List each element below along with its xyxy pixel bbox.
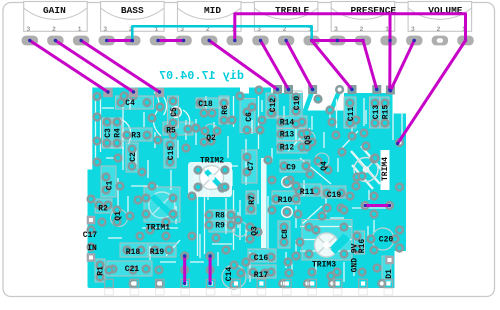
svg-text:3: 3 bbox=[411, 26, 415, 33]
svg-text:IN: IN bbox=[87, 244, 97, 253]
wire GAIN2 to board bbox=[54, 39, 136, 94]
svg-text:R1: R1 bbox=[97, 266, 106, 276]
svg-text:Q2: Q2 bbox=[206, 134, 216, 143]
wire TREBLE1-PRESENCE3 bbox=[310, 39, 339, 42]
svg-text:C14: C14 bbox=[225, 267, 234, 282]
svg-text:C2: C2 bbox=[129, 152, 138, 162]
trimmer TRIM1 bbox=[149, 192, 175, 218]
trimmer TRIM3 bbox=[315, 233, 346, 257]
wire MID2 to board bbox=[208, 39, 280, 91]
wire PRESENCE1 to board bbox=[388, 14, 392, 92]
resistor R17 bbox=[248, 265, 276, 278]
potentiometer GAIN bbox=[24, 2, 87, 33]
svg-text:TRIM2: TRIM2 bbox=[200, 157, 224, 166]
svg-text:3: 3 bbox=[103, 26, 107, 33]
svg-text:2: 2 bbox=[360, 26, 364, 33]
wire BASS3-BASS2 bbox=[105, 39, 134, 42]
capacitor C10 bbox=[290, 91, 302, 116]
svg-text:R8: R8 bbox=[215, 212, 225, 221]
svg-text:C9: C9 bbox=[286, 164, 296, 173]
svg-text:GND 9V: GND 9V bbox=[351, 243, 360, 272]
capacitor C16 bbox=[248, 249, 276, 262]
svg-text:BASS: BASS bbox=[121, 5, 144, 16]
svg-text:C6: C6 bbox=[245, 112, 254, 122]
capacitor C1 bbox=[101, 166, 116, 197]
lug MID 2 bbox=[201, 36, 217, 46]
svg-text:2: 2 bbox=[436, 26, 440, 33]
wire BASS1-MID3 bbox=[156, 39, 185, 42]
bottom pad row bbox=[105, 279, 393, 288]
trimmer TRIM3 frame bbox=[302, 220, 352, 261]
capacitor C4 bbox=[116, 96, 154, 109]
svg-text:C12: C12 bbox=[269, 98, 278, 113]
svg-text:C5: C5 bbox=[170, 107, 179, 117]
svg-text:C1: C1 bbox=[106, 181, 115, 191]
capacitor C20 body bbox=[372, 228, 394, 250]
svg-text:C8: C8 bbox=[281, 229, 290, 239]
capacitor C6 bbox=[240, 99, 255, 133]
svg-text:R2: R2 bbox=[98, 205, 108, 214]
potentiometer TREBLE bbox=[254, 2, 318, 33]
transistor Q5 bbox=[301, 131, 315, 145]
resistor R9 bbox=[209, 221, 235, 232]
svg-text:C18: C18 bbox=[198, 100, 213, 109]
svg-text:C3: C3 bbox=[104, 128, 113, 138]
svg-text:diy 17.04.07: diy 17.04.07 bbox=[159, 69, 244, 83]
lug VOLUME 2 bbox=[432, 36, 448, 46]
wire board horizontal bbox=[363, 204, 391, 207]
resistor R10 bbox=[272, 191, 300, 204]
trimmer TRIM1 frame bbox=[144, 187, 180, 222]
potentiometer VOLUME bbox=[408, 2, 472, 33]
via squares (GAIN wires) bbox=[103, 88, 112, 97]
pad courtyards bbox=[170, 106, 293, 218]
potentiometer BASS bbox=[101, 2, 165, 33]
cyan wire BASS2-TREBLE1 bbox=[131, 26, 314, 42]
svg-text:Q4: Q4 bbox=[320, 161, 329, 171]
top pad trace stubs bbox=[275, 88, 392, 111]
svg-text:R18: R18 bbox=[126, 248, 141, 257]
ghost pads below board bbox=[105, 289, 393, 295]
resistor R19 bbox=[148, 243, 176, 257]
svg-text:R5: R5 bbox=[166, 127, 176, 136]
svg-text:C13: C13 bbox=[372, 105, 381, 120]
lug BASS 2 bbox=[124, 36, 140, 46]
wire target pads (top row) bbox=[273, 85, 395, 95]
svg-text:C11: C11 bbox=[347, 107, 356, 122]
wire GAIN3 to board bbox=[28, 39, 110, 94]
capacitor C15 bbox=[164, 139, 176, 168]
lug GAIN 2 bbox=[47, 36, 63, 46]
resistor R16 bbox=[355, 231, 365, 254]
lug GAIN 1 bbox=[73, 36, 89, 46]
resistor R6 bbox=[219, 96, 229, 124]
wire TREBLE3 to board bbox=[259, 39, 290, 91]
capacitor C7 bbox=[242, 150, 257, 183]
svg-text:C17: C17 bbox=[83, 231, 98, 240]
capacitor C18 bbox=[196, 98, 228, 108]
trimmer trace slashes bbox=[152, 196, 348, 252]
svg-text:R19: R19 bbox=[150, 248, 165, 257]
solder pads bbox=[86, 85, 404, 289]
svg-text:Q3: Q3 bbox=[251, 226, 260, 236]
transistor Q4 bbox=[315, 153, 329, 167]
resistor R5 bbox=[163, 122, 193, 135]
resistor R2 bbox=[95, 199, 112, 213]
wire VOLUME3 to board bbox=[389, 39, 416, 93]
transistor Q2 bbox=[204, 124, 218, 138]
resistor R18 bbox=[120, 243, 148, 257]
lug BASS 3 bbox=[99, 36, 115, 46]
capacitor C2 bbox=[126, 143, 138, 172]
potentiometer MID bbox=[178, 2, 242, 33]
board text diy 17.04.07 (mirrored) bbox=[159, 69, 244, 83]
svg-text:C7: C7 bbox=[247, 161, 256, 171]
svg-text:R6: R6 bbox=[221, 105, 230, 115]
svg-text:Q1: Q1 bbox=[114, 211, 123, 221]
svg-text:C21: C21 bbox=[125, 265, 140, 274]
lug TREBLE 1 bbox=[304, 36, 320, 46]
svg-text:R9: R9 bbox=[215, 222, 225, 231]
trimmer TRIM2 frame bbox=[194, 163, 231, 196]
label GND 9V (mirrored) bbox=[351, 243, 360, 272]
capacitor C3 bbox=[103, 118, 113, 148]
resistor R4 bbox=[112, 118, 122, 148]
svg-text:Q5: Q5 bbox=[304, 135, 313, 145]
svg-text:R14: R14 bbox=[280, 119, 295, 128]
capacitor C13 bbox=[370, 97, 380, 128]
lug MID 3 bbox=[175, 36, 191, 46]
svg-text:C19: C19 bbox=[327, 191, 342, 200]
svg-text:R12: R12 bbox=[280, 144, 295, 153]
svg-text:C15: C15 bbox=[167, 146, 176, 161]
lug TREBLE 3 bbox=[252, 36, 268, 46]
lug VOLUME 1 bbox=[457, 36, 473, 46]
lug GAIN 3 bbox=[22, 36, 38, 46]
lug VOLUME 3 bbox=[406, 36, 422, 46]
diode D1 bbox=[382, 256, 391, 282]
trace gaps texture bbox=[96, 92, 403, 282]
capacitor C14 body bbox=[222, 265, 246, 289]
svg-text:R4: R4 bbox=[114, 128, 123, 138]
svg-text:R17: R17 bbox=[254, 271, 269, 280]
svg-text:C10: C10 bbox=[293, 96, 302, 111]
resistor R15 bbox=[380, 97, 389, 128]
svg-text:GAIN: GAIN bbox=[43, 5, 66, 16]
lug PRESENCE 1 bbox=[380, 36, 396, 46]
resistor R1 bbox=[95, 259, 105, 282]
svg-text:TRIM1: TRIM1 bbox=[146, 224, 170, 233]
svg-text:R13: R13 bbox=[280, 131, 295, 140]
capacitor C21 bbox=[107, 261, 152, 276]
svg-text:R11: R11 bbox=[300, 188, 315, 197]
pad square D1 bbox=[385, 256, 394, 265]
lug PRESENCE 3 bbox=[329, 36, 345, 46]
svg-text:MID: MID bbox=[204, 5, 221, 16]
resistor R8 bbox=[209, 210, 235, 221]
capacitor C19 bbox=[322, 186, 346, 198]
resistor R3 bbox=[122, 128, 152, 141]
svg-text:R3: R3 bbox=[131, 132, 141, 141]
svg-text:TRIM4: TRIM4 bbox=[381, 157, 390, 181]
transistor Q3 bbox=[233, 222, 248, 237]
resistor R13 bbox=[277, 129, 307, 141]
wire board vertical B bbox=[208, 254, 211, 285]
wire PRESENCE2 to board bbox=[363, 41, 378, 92]
wire VOLUME1 to board bbox=[396, 41, 466, 146]
capacitor C9 bbox=[280, 160, 310, 172]
resistor R14 bbox=[277, 116, 307, 128]
resistor R12 bbox=[277, 141, 307, 153]
capacitor C8 bbox=[278, 221, 290, 248]
resistor R11 bbox=[295, 184, 321, 196]
wire PRESENCE3-PRESENCE2 bbox=[336, 39, 365, 42]
capacitor C12 bbox=[266, 93, 278, 118]
lug MID 1 bbox=[227, 36, 243, 46]
svg-text:3: 3 bbox=[334, 26, 338, 33]
trimmer TRIM4 zone bbox=[351, 146, 390, 190]
lug PRESENCE 2 bbox=[355, 36, 371, 46]
lug BASS 1 bbox=[150, 36, 166, 46]
capacitor C11 bbox=[344, 97, 356, 128]
transistor Q1 bbox=[111, 210, 128, 227]
lug TREBLE 2 bbox=[278, 36, 294, 46]
svg-text:C20: C20 bbox=[379, 236, 394, 245]
wire TREBLE1 to board bbox=[312, 41, 354, 92]
svg-text:C16: C16 bbox=[254, 254, 269, 263]
svg-text:TRIM3: TRIM3 bbox=[312, 261, 336, 270]
svg-text:R15: R15 bbox=[382, 105, 391, 120]
edge pads IN side bbox=[87, 216, 96, 225]
svg-text:C4: C4 bbox=[125, 99, 135, 108]
svg-text:2: 2 bbox=[52, 26, 56, 33]
PCB board copper pour bbox=[88, 88, 407, 292]
svg-text:R10: R10 bbox=[278, 196, 293, 205]
board text ood (mirrored) bbox=[210, 151, 223, 159]
svg-text:D1: D1 bbox=[385, 269, 394, 279]
svg-text:R7: R7 bbox=[248, 195, 257, 205]
trace gap column bbox=[261, 158, 267, 248]
wire TREBLE2 to board bbox=[284, 39, 314, 91]
wire MID1-VOLUME1 top route bbox=[233, 14, 467, 42]
resistor R7 bbox=[246, 191, 256, 214]
capacitor C5 bbox=[168, 96, 179, 128]
svg-text:1: 1 bbox=[78, 26, 82, 33]
wire board vertical A bbox=[183, 254, 186, 285]
trimmer TRIM2 bbox=[188, 162, 232, 197]
svg-text:3: 3 bbox=[26, 26, 30, 33]
potentiometer PRESENCE bbox=[331, 2, 396, 33]
wire GAIN1 to board bbox=[79, 39, 161, 94]
